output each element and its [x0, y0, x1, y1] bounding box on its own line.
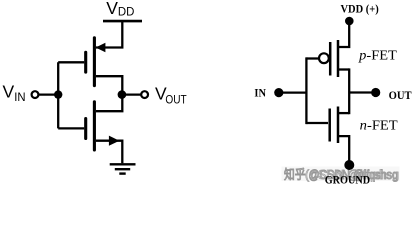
wire nmos gate lead [58, 127, 84, 129]
svg-text:OUT: OUT [389, 90, 412, 102]
svg-text:V: V [3, 81, 15, 101]
wire pmos drain to output node [96, 76, 122, 94]
watermark [282, 167, 400, 183]
svg-text:n-FET: n-FET [360, 118, 398, 133]
label VIN [3, 81, 26, 103]
svg-text:VDD (+): VDD (+) [341, 4, 379, 16]
wire OUT stub [349, 91, 372, 93]
p-FET gate bar [329, 42, 332, 76]
wire VIN to input junction [39, 93, 58, 95]
node output junction dot [118, 90, 127, 99]
svg-text:IN: IN [254, 86, 266, 100]
wire n-FET drain [338, 112, 349, 114]
wire nmos drain to output node [96, 95, 122, 112]
terminal IN dot [274, 88, 283, 97]
n-FET gate bar [328, 109, 331, 142]
wire output node to VOUT [122, 93, 141, 95]
label VOUT [155, 84, 187, 107]
svg-text:GROUND: GROUND [325, 174, 370, 186]
wire output rail (right) [348, 68, 350, 114]
terminal GROUND dot [344, 160, 354, 170]
terminal VDD dot [345, 17, 354, 26]
wire p-FET drain [338, 68, 349, 70]
wire VDD rail to pmos source [96, 21, 122, 47]
node input junction dot [54, 90, 62, 98]
pmos Q1 channel bar [93, 38, 96, 86]
wire n-FET gate lead [306, 122, 328, 124]
wire VDD to p-FET source [338, 21, 349, 47]
wire n-FET source to ground [338, 136, 349, 161]
pmos Q1 gate bar [84, 52, 87, 72]
power rail VDD bar [103, 20, 142, 23]
ground symbol [110, 164, 136, 173]
terminal VIN open circle [32, 91, 39, 98]
svg-text:V: V [106, 0, 118, 18]
p-FET channel bar [337, 40, 340, 77]
wire p-FET gate lead [306, 57, 319, 59]
label VDD (left) [106, 0, 134, 19]
wire nmos source to ground [96, 141, 122, 164]
terminal OUT dot [371, 88, 380, 97]
svg-text:IN: IN [14, 90, 25, 104]
n-FET channel bar [337, 107, 340, 144]
wire IN to input rail [283, 91, 306, 93]
svg-text:OUT: OUT [165, 94, 186, 106]
pmos source arrow [96, 43, 106, 53]
wire input rail [57, 62, 59, 128]
terminal VOUT open circle [141, 91, 148, 98]
wire pmos gate lead [58, 61, 84, 63]
nmos Q2 gate bar [84, 119, 87, 139]
nmos Q2 channel bar [93, 102, 96, 150]
p-FET gate bubble [319, 53, 329, 63]
wire input rail (right) [305, 57, 307, 124]
svg-text:p-FET: p-FET [358, 48, 397, 63]
svg-text:DD: DD [118, 5, 135, 19]
nmos source arrow [109, 136, 120, 146]
